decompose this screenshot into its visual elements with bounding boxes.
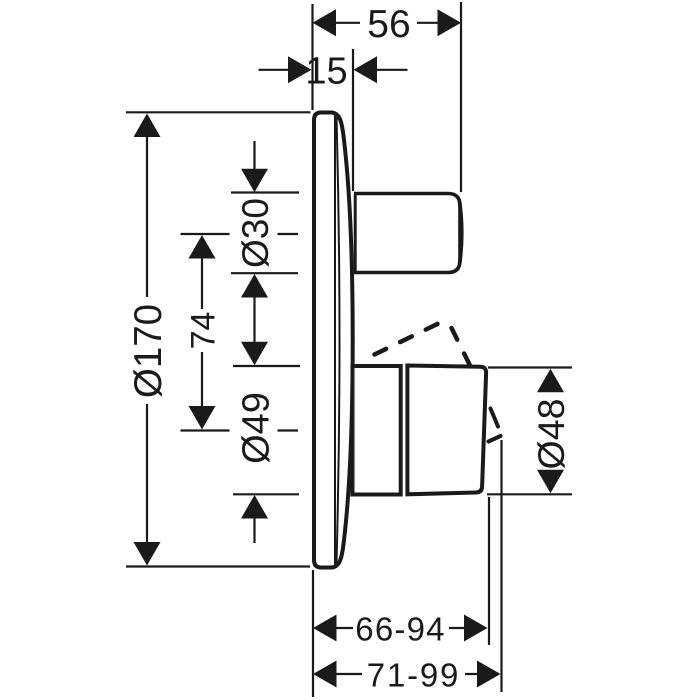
extension line x353 (plate front)	[352, 49, 354, 191]
svg-text:74: 74	[185, 312, 223, 350]
extension line lever top right (O48)	[488, 366, 572, 368]
arrow 56 left	[313, 9, 337, 36]
dimension line 15 tails	[259, 69, 408, 71]
arrow O170 top	[134, 114, 161, 138]
arrow 15 right	[354, 56, 378, 83]
svg-text:15: 15	[305, 51, 347, 93]
extension line bottom x501 (71-99)	[500, 440, 502, 692]
extension line lever bottom left (O49)	[233, 493, 299, 495]
extension line O170 bottom	[126, 565, 310, 567]
escutcheon inner rim line	[334, 115, 336, 566]
knob upper body	[354, 194, 460, 273]
dimension line 56	[336, 22, 439, 24]
arrow 66-94 right	[464, 615, 488, 642]
svg-text:Ø49: Ø49	[235, 392, 277, 464]
extension line bottom x489 (66-94)	[488, 497, 490, 645]
svg-text:Ø48: Ø48	[530, 399, 572, 470]
extension line x312 top left	[311, 4, 313, 110]
arrow O170 bottom	[134, 542, 161, 566]
arrow 74 bottom	[189, 406, 216, 430]
svg-text:56: 56	[367, 3, 410, 46]
extension line bottom left x313	[312, 570, 314, 697]
extension line lever bottom right (O48)	[487, 493, 572, 495]
dimension chain line O30/O49	[253, 141, 255, 543]
arrow 71-99 left	[313, 661, 337, 688]
arrow 74 top	[189, 235, 216, 259]
arrow 71-99 right	[477, 661, 501, 688]
arrow 56 right	[438, 9, 462, 36]
extension line lever axis (74 bottom)	[181, 429, 299, 431]
dimension line O170	[146, 136, 148, 543]
extension line knob top (O30)	[231, 191, 299, 193]
dashed rotated grip top edge	[375, 321, 444, 355]
dimension line 71-99	[336, 673, 478, 675]
dashed swing arc dash lower	[489, 436, 501, 442]
svg-text:Ø170: Ø170	[127, 304, 170, 398]
dashed rotated grip front edge	[452, 328, 471, 366]
dashed swing arc dash upper	[491, 409, 499, 427]
extension line x461 (knob front)	[460, 2, 462, 192]
knob left face line	[354, 194, 357, 273]
arrow O48 top	[537, 369, 564, 393]
extension line O170 top	[126, 111, 311, 113]
arrow 15 left	[288, 56, 312, 83]
extension line knob bottom (O30)	[231, 272, 298, 274]
lever grip rectangle	[407, 366, 486, 495]
svg-text:Ø30: Ø30	[235, 198, 276, 268]
extension line knob axis (74 top)	[181, 233, 299, 235]
arrow 66-94 left	[313, 615, 337, 642]
arrow O30 bottom	[241, 274, 268, 298]
escutcheon front face crease line	[337, 117, 340, 563]
escutcheon plate outline (side view)	[314, 113, 353, 568]
arrow O49 bottom	[241, 495, 268, 519]
dimension line 74	[201, 258, 203, 407]
lever sleeve rectangle	[353, 366, 401, 495]
arrow O48 bottom	[537, 470, 564, 494]
extension line lever top left (O49)	[233, 365, 300, 367]
svg-text:71-99: 71-99	[367, 657, 460, 694]
knob front bulge	[460, 202, 462, 264]
arrow O30 top	[241, 169, 268, 193]
svg-text:66-94: 66-94	[355, 611, 445, 648]
arrow O49 top	[241, 342, 268, 366]
dimension line 66-94	[336, 627, 465, 629]
